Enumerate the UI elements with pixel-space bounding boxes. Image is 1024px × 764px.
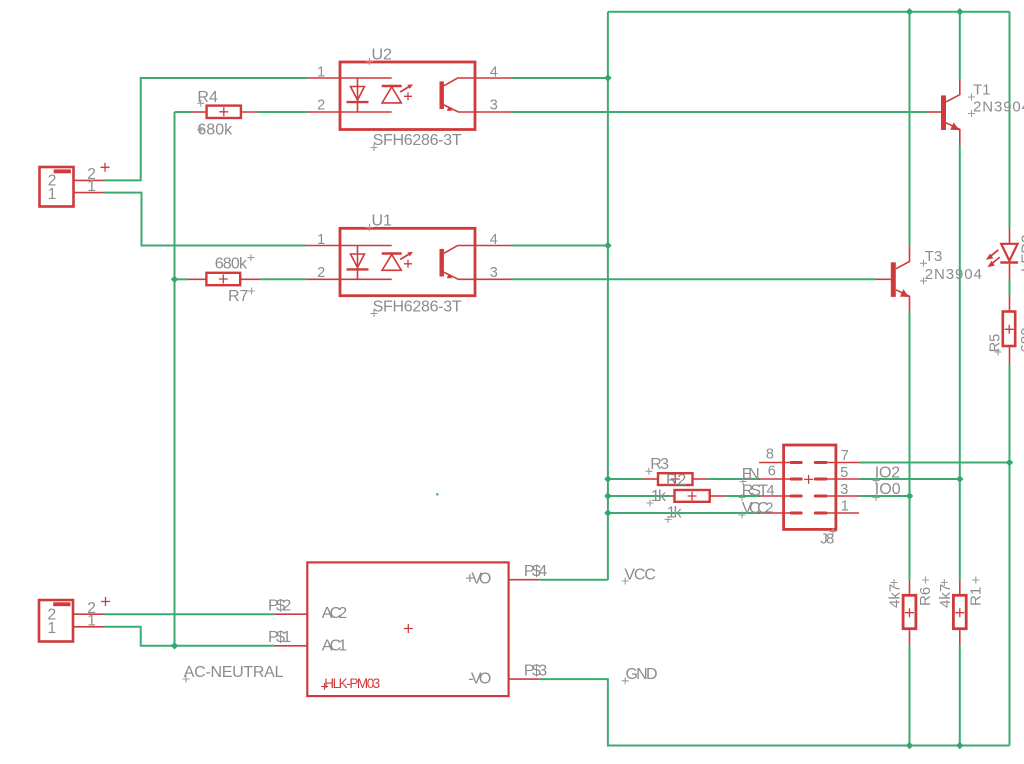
- R6 value origin cross: [891, 579, 898, 586]
- svg-text:7: 7: [841, 448, 849, 464]
- U3 value origin cross: [321, 683, 328, 690]
- svg-text:5: 5: [840, 465, 848, 481]
- wire left vertical bus x=174.5 R4 to AC1: [174, 112, 176, 646]
- junction RST / bus: [604, 492, 611, 499]
- AC-NEUTRAL origin cross: [183, 676, 190, 683]
- U1 phototransistor collector: [444, 246, 475, 254]
- wire below R6 to bottom rail: [909, 646, 911, 746]
- resistor R5 bottom lead: [1009, 346, 1011, 365]
- VCC origin cross: [622, 578, 629, 585]
- junction top rail / T1 column: [956, 8, 963, 15]
- resistor R1 origin cross: [955, 608, 964, 617]
- resistor R7 right lead: [240, 278, 260, 280]
- U2 pin 4 lead: [475, 77, 511, 79]
- svg-text:680: 680: [1018, 327, 1024, 352]
- svg-text:2: 2: [317, 97, 325, 113]
- R1 value origin cross: [941, 579, 948, 586]
- resistor R2 right lead: [710, 495, 726, 497]
- U1 LED diode 2 cathode bar: [382, 252, 402, 254]
- R6 name origin cross: [922, 577, 929, 584]
- op-amp U1 optocoupler body: [340, 228, 475, 295]
- junction bottom rail / T1 column: [956, 742, 963, 749]
- LED D1 triangle: [1001, 244, 1017, 261]
- resistor R3 body: [658, 473, 693, 485]
- connector X1 pin 1: [74, 192, 104, 194]
- RST origin cross: [739, 494, 746, 501]
- U1 pin 1 lead: [306, 245, 340, 247]
- svg-text:3: 3: [490, 97, 498, 113]
- pin header J8 body: [784, 445, 836, 529]
- wire R4 right to U2 pin2: [257, 111, 308, 113]
- svg-text:AC-NEUTRAL: AC-NEUTRAL: [184, 664, 284, 681]
- svg-text:4: 4: [490, 232, 498, 248]
- svg-text:3: 3: [490, 265, 498, 281]
- LED D1 cathode lead: [1009, 264, 1011, 279]
- resistor R7 body: [206, 273, 240, 285]
- U1 phototransistor emitter: [444, 272, 475, 279]
- U1 pin 2 lead: [306, 278, 340, 280]
- svg-text:IO0: IO0: [875, 481, 901, 498]
- junction EN / bus: [604, 475, 611, 482]
- connector X1 body: [40, 167, 74, 207]
- resistor R4 name origin cross: [197, 100, 204, 107]
- R3 value origin cross: [647, 500, 654, 507]
- U2 phototransistor emitter: [444, 105, 475, 112]
- transistor T3 base lead: [876, 278, 891, 280]
- svg-text:P$3: P$3: [524, 662, 547, 679]
- U2 input rails: [341, 78, 392, 112]
- R2 value origin cross: [665, 516, 672, 523]
- U3 pin P$3 lead: [509, 678, 540, 680]
- svg-text:8: 8: [766, 447, 774, 463]
- VCC J8 origin cross: [739, 512, 746, 519]
- connector X1 pin 2: [74, 179, 104, 181]
- wire below R1 to bottom rail: [959, 646, 961, 746]
- wire EN from bus to R3: [608, 478, 643, 480]
- svg-text:1: 1: [317, 232, 325, 248]
- J8 pin 6 lead: [759, 478, 802, 480]
- R3 name origin cross: [645, 468, 652, 475]
- svg-text:1: 1: [87, 178, 96, 195]
- wire connector X1 pin2 up to U2 pin1: [104, 78, 308, 180]
- wire T3 emitter column down to R6: [909, 312, 911, 581]
- svg-text:P$1: P$1: [268, 629, 291, 646]
- U2 name origin cross: [366, 58, 373, 65]
- svg-text:SFH6286-3T: SFH6286-3T: [373, 132, 462, 149]
- connector X1 origin cross: [101, 163, 110, 172]
- resistor R1 bottom lead: [959, 629, 961, 646]
- svg-text:1: 1: [87, 612, 96, 629]
- resistor R1 body: [953, 595, 966, 628]
- R5 name origin cross: [995, 349, 1002, 356]
- svg-text:3: 3: [840, 482, 848, 498]
- connector X1 polarity bar: [54, 169, 71, 173]
- connector X2 pin 2: [73, 613, 104, 615]
- connector X2 body: [39, 600, 73, 642]
- wire IO2 J8 pin5 to T1 emitter column: [859, 478, 960, 480]
- wire U1 pin4 to VCC bus: [511, 245, 608, 247]
- resistor R3 right lead: [693, 478, 707, 480]
- U2 pin 2 lead: [308, 111, 340, 113]
- wire R3 to J8 pin6: [707, 478, 760, 480]
- LED D1 anode lead: [1009, 228, 1011, 244]
- svg-text:4k7: 4k7: [887, 584, 904, 608]
- IO0 origin cross: [873, 494, 880, 501]
- svg-text:HLK-PM03: HLK-PM03: [324, 676, 380, 691]
- resistor R3 origin cross: [671, 475, 680, 484]
- U2 pin 1 lead: [308, 77, 340, 79]
- U2 value origin cross: [371, 144, 378, 151]
- J8 pin 1 lead: [815, 512, 859, 514]
- wire RST from bus to R2: [608, 495, 671, 497]
- resistor R5 top lead: [1009, 296, 1011, 312]
- junction bottom rail / T3 column: [906, 742, 913, 749]
- svg-text:1: 1: [48, 620, 57, 637]
- connector X2 pin 1: [73, 626, 104, 628]
- resistor R7 origin cross: [219, 275, 228, 284]
- svg-text:J8: J8: [820, 531, 834, 548]
- resistor R3 left lead: [643, 478, 659, 480]
- svg-text:680k: 680k: [215, 256, 248, 273]
- svg-text:-VO: -VO: [468, 670, 491, 687]
- J8 origin cross: [804, 475, 813, 484]
- svg-text:R3: R3: [650, 456, 669, 473]
- resistor R7 name origin cross: [248, 288, 255, 295]
- svg-text:RST: RST: [742, 483, 769, 500]
- resistor R5 body: [1003, 312, 1015, 347]
- svg-text:1: 1: [48, 186, 57, 203]
- power module U3 HLK-PM03 body: [307, 562, 508, 696]
- J8 pin 5 lead: [815, 478, 859, 480]
- svg-text:2: 2: [317, 265, 325, 281]
- U3 origin cross: [404, 624, 413, 633]
- svg-text:+VO: +VO: [465, 570, 491, 587]
- wire IO0 J8 pin3 to T3 emitter column: [859, 495, 910, 497]
- svg-text:EN: EN: [742, 466, 760, 483]
- U3 pin P$4 lead: [509, 579, 540, 581]
- R1 name origin cross: [972, 577, 979, 584]
- svg-text:2N3904: 2N3904: [973, 98, 1024, 115]
- resistor R4 right lead: [241, 111, 257, 113]
- wire T1 emitter column down to R1: [959, 146, 961, 581]
- resistor R4 origin cross: [219, 107, 228, 116]
- T3 name origin cross: [920, 260, 927, 267]
- svg-text:2N3904: 2N3904: [925, 266, 982, 283]
- U2 emission arrow: [400, 87, 408, 92]
- wire U2 pin4 to VCC bus: [511, 77, 608, 79]
- wire connector X2 pin2 to P$2: [104, 613, 275, 615]
- wire VCC vertical bus x=608: [607, 12, 609, 580]
- J8 pin 2 pad: [791, 512, 801, 515]
- wire U2 pin3 to T1 base: [511, 111, 927, 113]
- J8 pin 3 lead: [815, 495, 859, 497]
- op-amp U2 optocoupler body: [340, 62, 475, 130]
- resistor R2 left lead: [671, 495, 675, 497]
- wire J8 pin7 to right column: [859, 462, 1010, 464]
- junction IO2 / T1 column: [956, 475, 963, 482]
- T1 value origin cross: [968, 110, 975, 117]
- wire GND from P$3 down and along bottom: [539, 679, 1009, 745]
- wire LED cathode to R5 gap: [1009, 279, 1011, 296]
- EN origin cross: [740, 478, 747, 485]
- wire R4 left: [175, 111, 193, 113]
- resistor R6 body: [903, 595, 916, 628]
- svg-text:T1: T1: [973, 82, 991, 99]
- U1 pin 3 lead: [475, 278, 511, 280]
- svg-text:R2: R2: [666, 472, 686, 489]
- T1 name origin cross: [968, 94, 975, 101]
- connector X2 origin cross: [101, 597, 110, 606]
- svg-text:VCC: VCC: [624, 567, 656, 584]
- U1 LED diode 2: [382, 254, 401, 270]
- svg-text:U2: U2: [372, 46, 393, 63]
- svg-text:AC2: AC2: [322, 605, 347, 622]
- U2 LED diode 1: [351, 87, 365, 101]
- U1 emission arrow: [400, 254, 408, 259]
- wire R7 left from bus: [175, 278, 189, 280]
- junction top rail / T3 column: [906, 8, 913, 15]
- svg-text:4k7: 4k7: [937, 584, 954, 608]
- U3 pin P$2 lead: [275, 613, 308, 615]
- resistor R2 origin cross: [688, 492, 697, 501]
- transistor T3 emitter: [896, 290, 910, 312]
- J8 pin 1 pad: [815, 512, 826, 515]
- U2 LED diode 2 cathode bar: [382, 85, 402, 87]
- transistor T3 collector: [896, 246, 910, 269]
- U2 LED origin cross: [404, 92, 412, 100]
- J8 pin 8 lead: [759, 462, 802, 464]
- svg-text:1: 1: [317, 65, 325, 81]
- U2 LED diode 1 cathode bar: [347, 101, 369, 103]
- U1 value origin cross: [371, 310, 378, 317]
- svg-text:4: 4: [490, 65, 498, 81]
- transistor T1 emitter arrowhead: [950, 122, 959, 130]
- resistor R6 bottom lead: [909, 629, 911, 646]
- U1 LED diode 1 cathode bar: [347, 268, 369, 270]
- LED D1 cathode bar: [1000, 261, 1018, 264]
- wire R7 right to U1 pin2: [260, 278, 306, 280]
- T3 value origin cross: [920, 277, 927, 284]
- U1 LED origin cross: [404, 260, 412, 268]
- U1 LED diode 1: [351, 254, 365, 268]
- svg-text:GND: GND: [626, 666, 658, 683]
- resistor R4 body: [207, 106, 241, 118]
- svg-text:R1: R1: [968, 587, 985, 606]
- wire below R5 down to bottom rail: [1009, 365, 1011, 746]
- junction U2 pin4 / VCC bus: [604, 74, 611, 81]
- LED D1 emission arrow 1: [991, 250, 998, 256]
- J8 pin 7 pad: [815, 461, 826, 464]
- svg-text:P$2: P$2: [268, 598, 291, 615]
- resistor R5 origin cross: [1005, 325, 1014, 334]
- junction U1 pin4 / VCC bus: [604, 242, 611, 249]
- U2 phototransistor bar: [440, 81, 444, 109]
- U1 input rails: [341, 246, 392, 280]
- J8 pin 2 lead: [759, 512, 802, 514]
- wire U1 pin3 to T3 base: [511, 278, 876, 280]
- svg-text:IO2: IO2: [875, 464, 901, 481]
- resistor R2 body: [675, 490, 710, 502]
- J8 pin 5 pad: [815, 478, 826, 481]
- IO2 origin cross: [873, 477, 880, 484]
- junction VCC net / bus: [604, 509, 611, 516]
- transistor T1 base lead: [927, 111, 941, 113]
- transistor T3 emitter arrowhead: [900, 289, 909, 297]
- transistor T1 base bar: [941, 95, 946, 130]
- svg-text:P$4: P$4: [524, 563, 547, 580]
- wire P$4 to VCC bus: [539, 579, 608, 581]
- connector X2 polarity bar: [53, 602, 70, 606]
- junction R7 / left bus: [171, 276, 178, 283]
- wire VCC net from bus to J8 pin2: [608, 512, 760, 514]
- J8 pin 8 pad: [791, 461, 801, 464]
- LED D1 emission arrow 2: [993, 257, 1000, 263]
- svg-text:LED3: LED3: [1018, 234, 1024, 272]
- resistor R1 top lead: [959, 580, 961, 595]
- U1 pin 4 lead: [475, 245, 511, 247]
- wire R2 to J8 pin4: [725, 495, 759, 497]
- wire VCC top rail: [608, 11, 1010, 13]
- transistor T1 emitter: [946, 123, 960, 146]
- transistor T1 collector: [946, 79, 960, 102]
- resistor R4 value origin cross: [197, 126, 204, 133]
- J8 pin 4 pad: [791, 495, 801, 498]
- svg-text:SFH6286-3T: SFH6286-3T: [373, 298, 462, 315]
- svg-text:U1: U1: [372, 212, 393, 229]
- wire connector X1 pin1 down to U1 pin1: [104, 193, 306, 246]
- svg-text:1: 1: [841, 499, 849, 515]
- J8 pin 7 lead: [815, 462, 859, 464]
- junction IO0 / T3 column: [906, 492, 913, 499]
- U2 pin 3 lead: [475, 111, 511, 113]
- resistor R4 left lead: [192, 111, 207, 113]
- wire right column x=1009.5 top segment to LED: [1009, 12, 1011, 229]
- resistor R6 top lead: [909, 580, 911, 595]
- J8 pin 3 pad: [815, 495, 826, 498]
- U2 LED diode 2: [382, 87, 401, 103]
- U3 pin P$1 lead: [275, 645, 308, 647]
- wire T3 collector column from top rail: [909, 12, 911, 246]
- junction pin7 net / right column: [1006, 459, 1013, 466]
- wire connector X2 pin1 to P$1: [104, 627, 275, 646]
- GND origin cross: [622, 677, 629, 684]
- wire stub artifact: [436, 493, 438, 495]
- wire T1 collector column from top rail: [959, 12, 961, 79]
- transistor T3 base bar: [891, 262, 896, 297]
- svg-text:R7: R7: [228, 288, 249, 305]
- svg-text:R6: R6: [917, 587, 934, 606]
- junction P$1 / left bus: [171, 642, 178, 649]
- resistor R7 left lead: [188, 278, 206, 280]
- svg-text:6: 6: [768, 464, 776, 480]
- svg-text:T3: T3: [925, 248, 943, 265]
- U2 phototransistor collector: [444, 78, 475, 86]
- U1 name origin cross: [366, 224, 373, 231]
- svg-text:R5: R5: [987, 334, 1003, 353]
- resistor R7 value origin cross: [247, 254, 254, 261]
- J8 pin 6 pad: [791, 478, 801, 481]
- U1 phototransistor bar: [440, 249, 444, 277]
- J8 name origin cross: [830, 528, 837, 535]
- svg-text:VCC: VCC: [742, 500, 769, 517]
- svg-text:AC1: AC1: [322, 637, 347, 654]
- J8 pin 4 lead: [759, 495, 802, 497]
- resistor R6 origin cross: [905, 608, 914, 617]
